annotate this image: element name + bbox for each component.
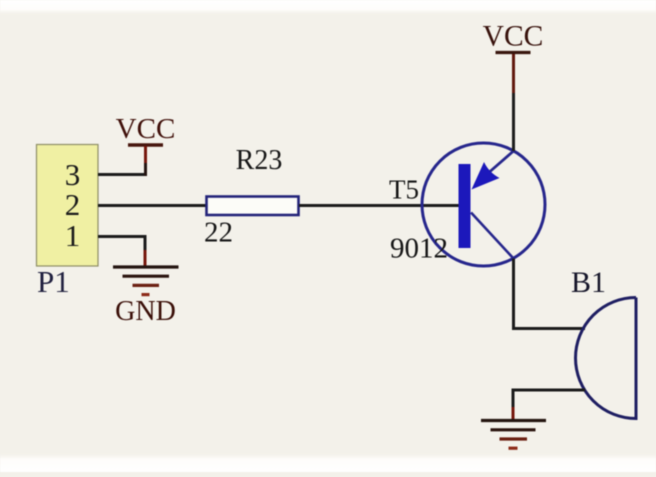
transistor T5	[422, 143, 545, 266]
svg-text:1: 1	[65, 218, 81, 253]
wire pin 1 to GND	[98, 235, 145, 252]
ground GND left	[113, 250, 179, 295]
svg-text:9012: 9012	[390, 233, 448, 265]
svg-text:R23: R23	[236, 145, 283, 176]
wire pin 3 to VCC	[98, 173, 145, 176]
wire collector to buzzer	[512, 327, 585, 330]
svg-text:VCC: VCC	[483, 21, 544, 53]
svg-text:T5: T5	[389, 175, 419, 205]
buzzer B1	[575, 298, 636, 419]
power VCC left	[116, 113, 176, 176]
wire R23 to T5 base	[299, 204, 459, 207]
connector P1	[37, 145, 99, 267]
resistor R23	[207, 197, 299, 216]
power VCC right	[483, 21, 544, 53]
wire VCC to T5 emitter	[512, 54, 515, 151]
wire buzzer to ground	[513, 389, 585, 410]
svg-text:22: 22	[204, 217, 233, 249]
svg-text:B1: B1	[571, 266, 606, 299]
svg-text:VCC: VCC	[116, 113, 176, 145]
ground right	[481, 407, 546, 448]
wire T5 collector down	[512, 259, 515, 329]
svg-text:P1: P1	[37, 264, 70, 299]
svg-text:GND: GND	[115, 296, 176, 327]
wire pin 2 to R23	[98, 204, 207, 207]
